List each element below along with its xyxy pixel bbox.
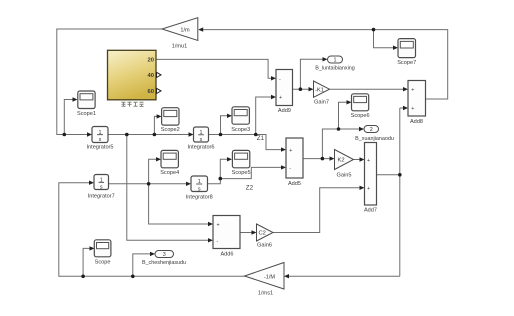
adder Add8 xyxy=(408,81,426,126)
svg-text:Z1: Z1 xyxy=(257,135,265,142)
svg-text:Scope4: Scope4 xyxy=(160,170,179,176)
svg-text:-1/M: -1/M xyxy=(264,274,276,280)
svg-text:60: 60 xyxy=(148,89,154,95)
arrowhead into Integrator5 xyxy=(87,132,92,136)
svg-text:-K1: -K1 xyxy=(315,87,324,93)
svg-text:+: + xyxy=(411,106,414,112)
scope Scope2 xyxy=(161,108,180,134)
subsystem road model (yellow) xyxy=(108,50,157,100)
svg-text:Scope: Scope xyxy=(95,260,111,266)
outport 3 B_cheshenjiasudu xyxy=(142,251,186,267)
svg-text:Integrator6: Integrator6 xyxy=(187,145,214,151)
scope Scope4 xyxy=(160,150,179,176)
arrowhead into Gain5 xyxy=(330,156,335,160)
arrowhead into Add9 in2 xyxy=(271,95,276,99)
node Z1 label xyxy=(257,135,265,142)
wire net L: Add6 out to Gain6 then Add7 in2 xyxy=(240,188,361,233)
road model unconnected port 40 arrow xyxy=(157,72,162,77)
arrowhead into Scope xyxy=(90,246,95,250)
junction dot net C b xyxy=(153,133,157,137)
integrator Integrator8 xyxy=(186,176,213,200)
arrowhead into Add6 in2 xyxy=(208,238,213,242)
svg-text:s: s xyxy=(200,137,203,143)
svg-text:Add8: Add8 xyxy=(410,119,423,125)
arrowhead into Integrator8 xyxy=(186,182,191,186)
wire net K: Add7 out to Add8 in2 and 1/ms1 gain input xyxy=(288,108,405,276)
gain Gain7 xyxy=(314,81,330,106)
arrowhead into Add8 in1 xyxy=(403,87,408,91)
junction dot net M b xyxy=(131,275,135,279)
wire net A: Add8 output to 1/mu1 gain input (top feedback) xyxy=(202,30,448,99)
arrowhead into 1/mu1 xyxy=(198,27,203,31)
wire net F: Integrator8 out (Z2) to Scope5 and Add5 in2 xyxy=(208,159,283,184)
arrowhead into Add5 in2 xyxy=(281,165,286,169)
svg-text:2: 2 xyxy=(370,127,373,133)
svg-text:Integrator7: Integrator7 xyxy=(88,194,115,200)
svg-text:-: - xyxy=(279,76,281,82)
wire net I: Add9 out to Gain7 and outport1 xyxy=(293,59,325,89)
road model CJK caption (blurred glyph blobs) xyxy=(122,102,144,107)
arrowhead into Gain7 xyxy=(309,87,314,91)
arrowhead into Scope1 xyxy=(73,97,78,101)
node Z2 label xyxy=(246,185,254,192)
arrowhead into Scope2 xyxy=(157,114,162,118)
svg-text:-: - xyxy=(217,238,219,244)
junction dot net M a xyxy=(81,275,85,279)
svg-text:+: + xyxy=(367,186,370,192)
svg-text:+: + xyxy=(289,148,292,154)
svg-text:Add5: Add5 xyxy=(288,181,301,187)
svg-text:Scope2: Scope2 xyxy=(161,127,180,133)
svg-text:s: s xyxy=(100,185,103,191)
arrowhead into Scope6 xyxy=(347,100,352,104)
svg-text:+: + xyxy=(217,222,220,228)
integrator Integrator6 xyxy=(187,127,214,151)
scope Scope7 xyxy=(397,39,416,66)
svg-text:1/mu1: 1/mu1 xyxy=(172,44,188,50)
svg-text:B_luntaibianxing: B_luntaibianxing xyxy=(315,65,355,71)
svg-text:s: s xyxy=(99,137,102,143)
wire net G: Add5 out to Gain5, outport2 and Scope6 xyxy=(303,102,361,159)
junction dot net F xyxy=(219,177,223,181)
svg-text:+: + xyxy=(367,158,370,164)
junction dot net I xyxy=(299,87,303,91)
svg-text:-: - xyxy=(289,166,291,172)
wire net E: Integrator7 out to Integrator8, branches Scope4 and Add6 in1 xyxy=(109,159,210,224)
arrowhead into Scope7 xyxy=(393,46,398,50)
svg-text:3: 3 xyxy=(163,252,166,258)
svg-text:Scope3: Scope3 xyxy=(231,127,250,133)
svg-text:+: + xyxy=(411,87,414,93)
wire net C: Integrator5 out to Integrator6, branches Scope2 and Add6 in2 xyxy=(108,116,210,240)
svg-text:1/ms1: 1/ms1 xyxy=(258,291,273,297)
outport 1 B_luntaibianxing xyxy=(315,56,355,71)
gain Gain5 xyxy=(335,150,354,179)
junction dot net E xyxy=(147,182,151,186)
arrowhead into outport 1 xyxy=(323,57,328,61)
junction dot net C a xyxy=(125,133,129,137)
svg-text:K2: K2 xyxy=(338,158,345,164)
arrowhead into Scope5 xyxy=(227,157,232,161)
integrator Integrator5 xyxy=(86,127,113,151)
arrowhead into Integrator6 xyxy=(189,132,194,136)
arrowhead into outport 3 xyxy=(150,252,155,256)
adder Add6 xyxy=(213,216,240,258)
arrowhead into Add7 in2 xyxy=(360,186,365,190)
scope Scope6 xyxy=(351,94,370,119)
svg-text:Add9: Add9 xyxy=(278,108,291,114)
scope Scope1 xyxy=(77,91,96,117)
svg-text:Scope1: Scope1 xyxy=(77,111,96,117)
outport 2 B_xuanjianaodu xyxy=(355,126,394,142)
wire net H: Gain7 out to Add8 in1 xyxy=(330,88,405,90)
arrowhead into Scope3 xyxy=(227,114,232,118)
svg-text:C2: C2 xyxy=(259,231,266,237)
svg-text:Scope6: Scope6 xyxy=(351,113,370,119)
svg-text:Z2: Z2 xyxy=(246,185,254,192)
junction dot net G a xyxy=(321,157,325,161)
svg-text:+: + xyxy=(279,95,282,101)
arrowhead into Integrator7 xyxy=(89,181,94,185)
adder Add5 xyxy=(286,138,303,187)
wire net J: road model port20 to Add9 in1 xyxy=(156,59,273,78)
svg-text:B_cheshenjiasudu: B_cheshenjiasudu xyxy=(142,260,186,266)
svg-text:20: 20 xyxy=(148,58,154,64)
gain Gain6 xyxy=(257,224,274,249)
svg-text:1: 1 xyxy=(334,58,337,64)
svg-text:B_xuanjianaodu: B_xuanjianaodu xyxy=(355,136,394,142)
svg-text:Integrator8: Integrator8 xyxy=(186,194,213,200)
arrowhead into Add5 in1 xyxy=(281,147,286,151)
junction dot net B xyxy=(63,133,67,137)
svg-text:Gain7: Gain7 xyxy=(314,100,329,106)
scope Scope3 xyxy=(231,107,250,133)
svg-text:Scope5: Scope5 xyxy=(232,170,251,176)
gain 1/mu1 (left pointing triangle) xyxy=(162,18,198,50)
wire net B: 1/mu1 output down-left to Integrator5, branch Scope1 xyxy=(57,29,162,135)
junction dot net G b xyxy=(337,127,341,131)
integrator Integrator7 xyxy=(88,175,115,200)
svg-text:40: 40 xyxy=(148,73,154,79)
arrowhead into Add7 in1 xyxy=(360,157,365,161)
svg-text:s: s xyxy=(198,186,201,192)
arrowhead into Scope4 xyxy=(156,157,161,161)
arrowhead into Add6 in1 xyxy=(208,222,213,226)
junction dot net D z1 xyxy=(254,133,258,137)
gain 1/ms1 (left pointing triangle) xyxy=(245,263,285,297)
road model unconnected port 60 arrow xyxy=(157,88,162,93)
scope Scope5 xyxy=(232,150,251,176)
wire net D: Integrator6 out (Z1) to Add9 in2 and Add5 in1, branch Scope3 xyxy=(209,97,283,150)
junction dot net D a xyxy=(219,133,223,137)
svg-text:Gain5: Gain5 xyxy=(337,173,352,179)
arrowhead into 1/ms1 xyxy=(284,274,289,278)
svg-text:Gain6: Gain6 xyxy=(257,243,272,249)
junction dot net K xyxy=(398,173,402,177)
adder Add9 xyxy=(276,70,293,115)
scope Scope xyxy=(94,240,111,266)
svg-text:Add6: Add6 xyxy=(220,252,233,258)
svg-text:Integrator5: Integrator5 xyxy=(86,145,113,151)
arrowhead into Gain6 xyxy=(252,230,257,234)
arrowhead into Add9 in1 xyxy=(271,76,276,80)
junction dot net A xyxy=(372,28,376,32)
svg-text:Add7: Add7 xyxy=(364,208,377,214)
arrowhead into Add8 in2 xyxy=(403,106,408,110)
svg-text:Scope7: Scope7 xyxy=(397,60,416,66)
adder Add7 xyxy=(364,143,377,214)
wire net M: 1/ms1 out bottom rail to Integrator7, Scope, outport3 xyxy=(59,183,245,277)
arrowhead into outport 2 xyxy=(359,127,364,131)
svg-text:1/m: 1/m xyxy=(180,27,190,33)
